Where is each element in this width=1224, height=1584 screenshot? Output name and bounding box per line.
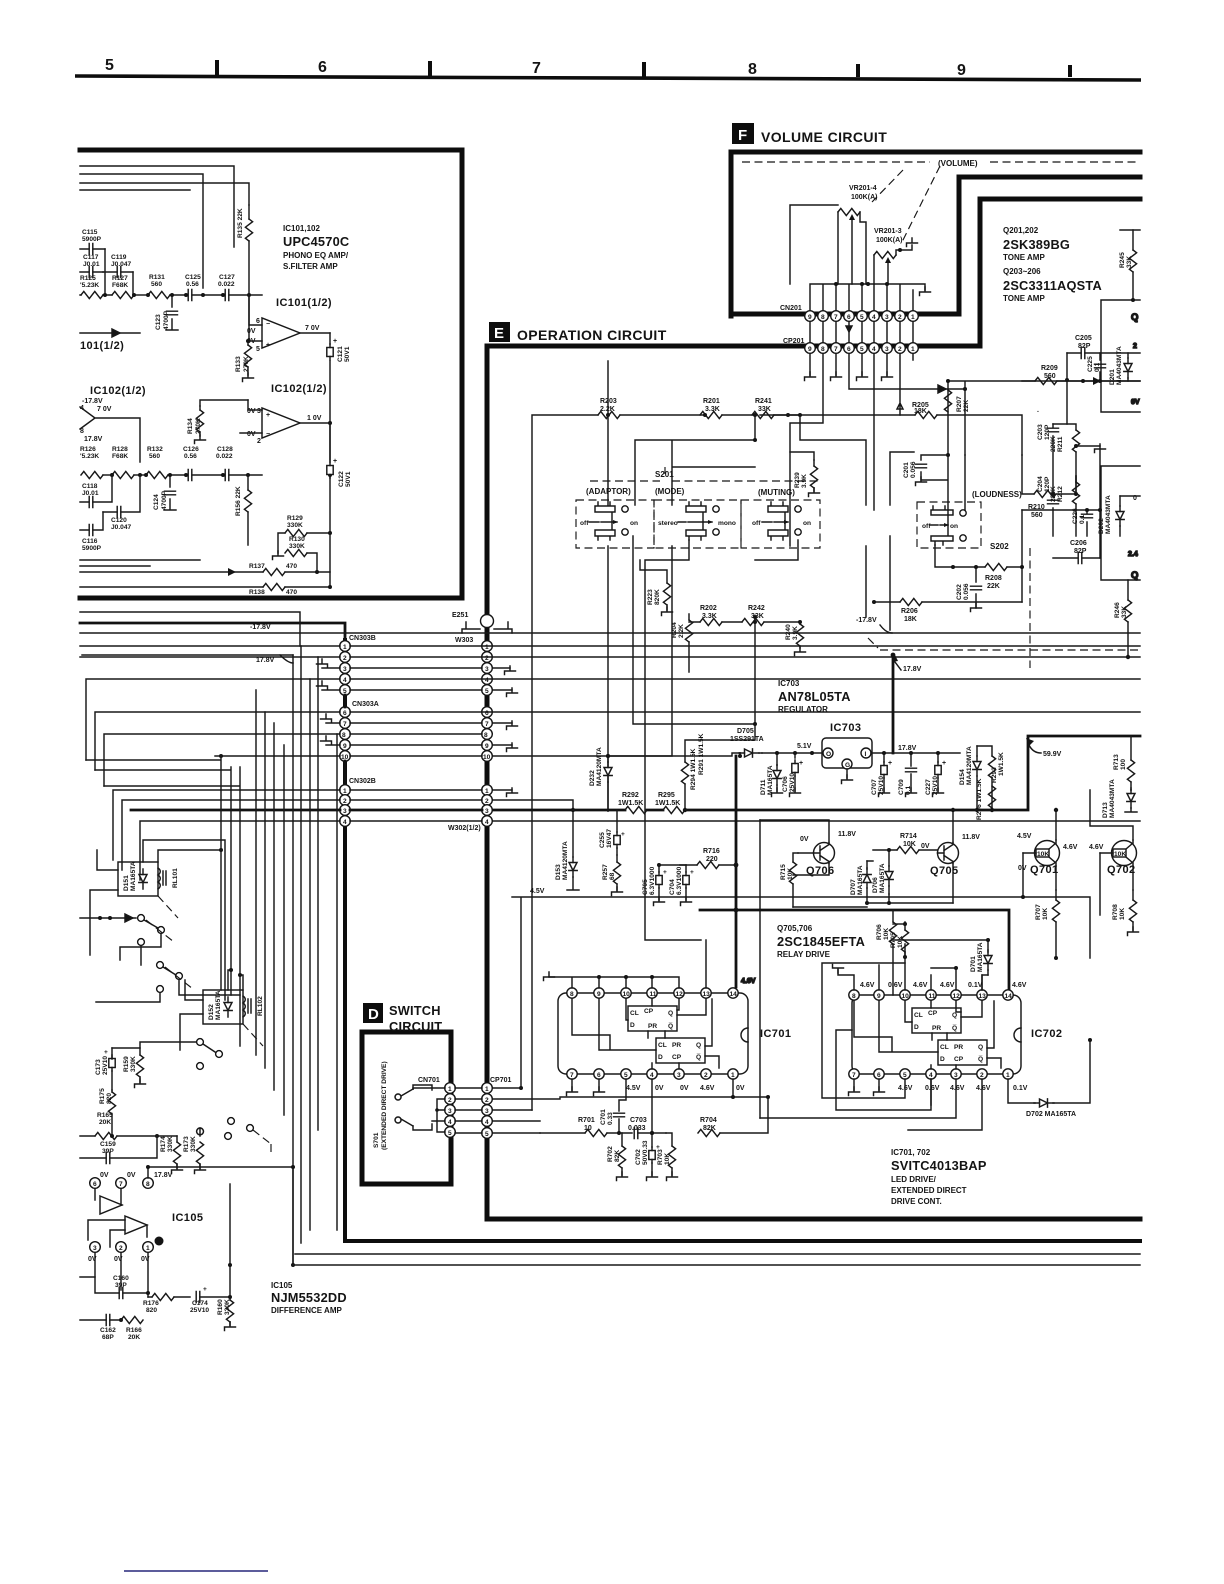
svg-text:13: 13 <box>703 991 711 998</box>
svg-text:NJM5532DD: NJM5532DD <box>271 1290 347 1305</box>
capacitor C226 0.1 <box>1072 508 1093 536</box>
svg-text:20K: 20K <box>128 1334 140 1341</box>
wire row pin10 <box>215 753 740 758</box>
IC701 bottom labels <box>626 1085 745 1092</box>
svg-text:CN303B: CN303B <box>349 635 376 642</box>
wire 4.5V rail <box>512 888 1090 1088</box>
F section label <box>732 123 887 145</box>
svg-text:4.6V: 4.6V <box>741 978 756 985</box>
svg-text:MA4120MTA: MA4120MTA <box>596 747 603 786</box>
switch contacts upper group <box>80 914 240 1002</box>
wires bottom-left entry <box>80 560 200 566</box>
svg-text:RELAY DRIVE: RELAY DRIVE <box>777 950 831 959</box>
wire row pin9 hook <box>321 736 518 752</box>
svg-text:0V: 0V <box>680 1085 689 1092</box>
svg-text:7 0V: 7 0V <box>305 325 320 332</box>
svg-text:1: 1 <box>343 644 347 651</box>
svg-text:2: 2 <box>898 314 902 321</box>
svg-text:R296 1W1.5K: R296 1W1.5K <box>976 778 983 820</box>
resistor R702 82K <box>607 1133 628 1181</box>
resistor R125 5.23K <box>80 275 112 299</box>
svg-text:4.6V: 4.6V <box>1063 844 1078 851</box>
svg-text:R132: R132 <box>147 446 163 453</box>
diode D707 MA165TA <box>850 861 871 903</box>
svg-text:MA4120MTA: MA4120MTA <box>966 746 973 785</box>
svg-text:VOLUME CIRCUIT: VOLUME CIRCUIT <box>761 129 887 145</box>
svg-text:D: D <box>914 1024 919 1031</box>
resistor R293 1W1.5K <box>977 746 1005 812</box>
svg-text:IC703: IC703 <box>830 722 861 734</box>
S201 label and bracket <box>590 467 818 481</box>
resistor R246 33K <box>1114 580 1132 659</box>
svg-text:C118: C118 <box>82 483 98 490</box>
switch box MUTING <box>741 488 820 548</box>
svg-text:0.56: 0.56 <box>184 453 197 460</box>
IC105 opamp B <box>88 1216 147 1247</box>
connector CN201 <box>780 305 918 321</box>
svg-text:C705: C705 <box>642 879 649 895</box>
wire row pin6 <box>95 712 1140 770</box>
svg-text:C202: C202 <box>956 584 963 600</box>
svg-text:0.56: 0.56 <box>186 281 199 288</box>
svg-text:5: 5 <box>485 688 489 695</box>
transistor Q702 digital <box>1089 790 1137 915</box>
svg-text:R211: R211 <box>1057 436 1064 452</box>
svg-text:330K: 330K <box>289 543 305 550</box>
svg-text:33K: 33K <box>758 406 771 413</box>
svg-text:PHONO EQ AMP/: PHONO EQ AMP/ <box>283 251 349 260</box>
svg-text:R175: R175 <box>99 1088 106 1104</box>
svg-text:VR201-4: VR201-4 <box>849 185 877 192</box>
IC702 body <box>852 995 1062 1074</box>
svg-text:MA165TA: MA165TA <box>977 942 984 972</box>
svg-text:R246: R246 <box>1114 602 1121 618</box>
svg-text:1: 1 <box>485 788 489 795</box>
svg-text:CP201: CP201 <box>783 338 805 345</box>
wire row w302-3 thick rail <box>131 736 1140 812</box>
svg-text:C173: C173 <box>95 1059 102 1075</box>
wire relay2 feeds <box>180 968 243 1050</box>
svg-text:4.6V: 4.6V <box>913 982 928 989</box>
svg-text:3: 3 <box>448 1108 452 1115</box>
IC702 top bus ground <box>833 944 983 990</box>
svg-text:3: 3 <box>485 666 489 673</box>
svg-text:R129: R129 <box>287 515 303 522</box>
svg-text:'5.23K: '5.23K <box>80 282 99 289</box>
svg-text:R208: R208 <box>985 575 1002 582</box>
wire switch outputs down <box>606 536 890 940</box>
svg-text:1: 1 <box>1006 1072 1010 1079</box>
svg-text:off: off <box>580 520 589 527</box>
svg-text:+: + <box>266 342 270 349</box>
svg-text:E251: E251 <box>452 612 468 619</box>
wire row pin7 hook <box>321 714 518 730</box>
capacitor C201 0.056 <box>903 453 965 510</box>
svg-text:+: + <box>333 458 337 465</box>
connector CN302B column <box>340 778 376 826</box>
wire tone node row <box>1022 449 1140 558</box>
wire feedback row y333 <box>80 329 140 337</box>
resistor R705 10K body <box>893 922 909 957</box>
wire IC702 left loop <box>760 963 982 1130</box>
svg-text:C701: C701 <box>600 1109 607 1125</box>
wire long verticals mid-left <box>256 646 337 1265</box>
resistor R130 330K <box>273 536 318 572</box>
svg-text:C204: C204 <box>1037 476 1044 492</box>
svg-text:5: 5 <box>860 314 864 321</box>
IC701 flipflop box B <box>656 1038 705 1063</box>
svg-text:S202: S202 <box>990 542 1009 551</box>
svg-text:100K(A): 100K(A) <box>876 237 902 244</box>
svg-text:4: 4 <box>343 819 347 826</box>
svg-text:D: D <box>658 1054 663 1061</box>
capacitor C225 0.1 <box>1087 353 1106 381</box>
resistor R714 10K <box>873 833 937 854</box>
wire row w302-1 hook <box>113 788 518 860</box>
svg-text:6: 6 <box>93 1181 97 1188</box>
svg-text:3: 3 <box>954 1072 958 1079</box>
svg-text:+: + <box>621 831 625 838</box>
svg-text:5: 5 <box>485 1131 489 1138</box>
svg-text:4: 4 <box>485 677 489 684</box>
wire long verticals left <box>86 756 240 1046</box>
svg-text:3: 3 <box>343 808 347 815</box>
diode D706 MA165TA <box>872 848 893 894</box>
resistor R160 330K <box>217 1184 236 1331</box>
IC701 bottom grounds <box>567 1079 605 1096</box>
svg-text:2: 2 <box>485 1097 489 1104</box>
svg-text:IC105: IC105 <box>172 1212 203 1224</box>
svg-text:+: + <box>663 869 667 876</box>
svg-text:2: 2 <box>898 346 902 353</box>
wire R701 row <box>0 0 1 1</box>
svg-text:2: 2 <box>1133 343 1137 350</box>
svg-text:C702: C702 <box>635 1149 642 1165</box>
relay RL101 <box>118 861 179 918</box>
svg-text:0V: 0V <box>800 836 809 843</box>
svg-text:2: 2 <box>343 798 347 805</box>
svg-text:R245: R245 <box>1119 252 1126 268</box>
resistor R210 560 <box>1022 407 1078 519</box>
svg-text:R206: R206 <box>901 608 918 615</box>
regulator IC703 <box>822 722 960 784</box>
connector W303 column <box>455 637 492 761</box>
svg-text:25V10: 25V10 <box>102 1056 109 1075</box>
capacitor C702 50V0.33 <box>635 1131 660 1181</box>
wire row pin2 <box>80 656 1140 658</box>
resistor R704 82K <box>698 1079 770 1137</box>
svg-text:−: − <box>266 431 270 438</box>
svg-text:8: 8 <box>570 991 574 998</box>
svg-text:-17.8V: -17.8V <box>82 398 103 405</box>
svg-text:6: 6 <box>256 318 260 325</box>
svg-text:CN303A: CN303A <box>352 701 379 708</box>
capacitor C205 82P <box>1065 335 1140 382</box>
IC702 bottom grounds <box>849 1079 885 1096</box>
wire -17.8V rail label <box>856 617 892 633</box>
svg-text:CL: CL <box>940 1044 949 1051</box>
svg-text:6: 6 <box>485 710 489 717</box>
capacitor C706 25V10 <box>782 760 803 797</box>
svg-text:50V1: 50V1 <box>344 346 351 362</box>
transistor Q706 <box>760 820 856 877</box>
svg-text:on: on <box>950 523 958 530</box>
svg-text:R295: R295 <box>658 792 675 799</box>
svg-text:Q701: Q701 <box>1030 864 1059 876</box>
phono EQ amp block border <box>80 150 462 598</box>
svg-text:OPERATION CIRCUIT: OPERATION CIRCUIT <box>517 327 667 343</box>
svg-text:R156 22K: R156 22K <box>235 486 242 516</box>
svg-text:12: 12 <box>953 993 961 1000</box>
wire switch mid links <box>0 0 1 1</box>
svg-text:2: 2 <box>704 1072 708 1079</box>
svg-text:5: 5 <box>860 346 864 353</box>
svg-text:R702: R702 <box>607 1146 614 1162</box>
svg-text:1: 1 <box>485 644 489 651</box>
resistor R245 33K <box>1119 230 1140 300</box>
svg-text:Q: Q <box>668 1010 673 1017</box>
svg-text:0V: 0V <box>247 431 256 438</box>
svg-text:C159: C159 <box>100 1141 116 1148</box>
svg-text:9: 9 <box>957 62 966 79</box>
svg-text:22K: 22K <box>963 400 970 412</box>
svg-text:PR: PR <box>932 1025 941 1032</box>
svg-text:R239: R239 <box>794 472 801 488</box>
IC702 top pins <box>849 990 1013 1000</box>
op-amp IC102 left half clipped <box>80 398 140 462</box>
svg-text:R706: R706 <box>876 924 883 940</box>
svg-text:IC102(1/2): IC102(1/2) <box>90 385 146 397</box>
svg-text:820: 820 <box>146 1307 157 1314</box>
svg-text:6: 6 <box>847 346 851 353</box>
svg-text:R294 1W1.5K: R294 1W1.5K <box>690 748 697 790</box>
svg-text:D701: D701 <box>970 956 977 972</box>
svg-text:C203: C203 <box>1037 424 1044 440</box>
svg-text:LED DRIVE/: LED DRIVE/ <box>891 1175 937 1184</box>
diode D702 MA165TA <box>1008 1038 1092 1118</box>
svg-text:+: + <box>104 1049 108 1056</box>
svg-text:+: + <box>799 760 803 767</box>
svg-text:4.6V: 4.6V <box>860 982 875 989</box>
resistor R135 22K <box>237 205 253 341</box>
svg-text:1: 1 <box>343 788 347 795</box>
svg-text:C125: C125 <box>185 274 201 281</box>
svg-text:50V1: 50V1 <box>345 471 352 487</box>
svg-text:3: 3 <box>677 1072 681 1079</box>
svg-text:R201: R201 <box>703 398 720 405</box>
op-amp IC102 (1/2) right <box>240 383 330 460</box>
svg-text:14: 14 <box>1005 993 1013 1000</box>
resistor R716 220 <box>680 848 738 869</box>
connector CP201 <box>783 338 918 353</box>
svg-text:20K: 20K <box>99 1119 111 1126</box>
svg-text:7: 7 <box>570 1072 574 1079</box>
svg-text:2: 2 <box>485 655 489 662</box>
svg-text:C225: C225 <box>1087 356 1094 372</box>
svg-text:VR201-3: VR201-3 <box>874 228 902 235</box>
resistor R174 330K <box>157 1136 183 1174</box>
svg-text:8: 8 <box>748 61 757 78</box>
wire IC702 surround <box>0 0 1 1</box>
resistor R208 22K <box>935 510 1024 602</box>
svg-text:10K: 10K <box>1042 908 1049 920</box>
resistor R206 18K <box>872 598 1022 623</box>
wire row pin4 <box>86 679 1140 760</box>
svg-text:7: 7 <box>119 1181 123 1188</box>
resistor R201 3.3K <box>700 398 757 419</box>
resistor R159 330K <box>112 1039 222 1088</box>
svg-text:4: 4 <box>872 346 876 353</box>
resistor R138 470 <box>80 533 332 596</box>
diode D713 MA4043MTA <box>1102 779 1137 818</box>
svg-text:J0.01: J0.01 <box>83 261 100 268</box>
wire input steps top-left <box>80 166 249 288</box>
svg-text:UPC4570C: UPC4570C <box>283 234 349 249</box>
svg-text:7: 7 <box>485 721 489 728</box>
svg-text:stereo: stereo <box>658 520 678 527</box>
svg-text:0V: 0V <box>736 1085 745 1092</box>
svg-text:D202: D202 <box>1098 518 1105 534</box>
svg-text:R223: R223 <box>647 589 654 605</box>
svg-text:0.022: 0.022 <box>218 281 235 288</box>
svg-text:C160: C160 <box>113 1275 129 1282</box>
svg-text:IC702: IC702 <box>1031 1028 1062 1040</box>
svg-text:(ADAPTOR): (ADAPTOR) <box>586 487 631 496</box>
resistor R207 22K <box>944 390 970 412</box>
switch S701 <box>373 1061 432 1150</box>
box Q202 clipped <box>1101 298 1140 412</box>
svg-text:0.022: 0.022 <box>216 453 233 460</box>
svg-text:D151: D151 <box>123 875 130 891</box>
svg-text:4.6V: 4.6V <box>700 1085 715 1092</box>
IC701 top bus and ground <box>544 940 756 988</box>
diode D705 1SS291TA <box>730 728 764 758</box>
wire CP201 down feeds <box>790 354 823 546</box>
svg-text:3: 3 <box>885 346 889 353</box>
svg-text:IC701, 702: IC701, 702 <box>891 1148 931 1157</box>
svg-text:7: 7 <box>834 346 838 353</box>
svg-text:CN701: CN701 <box>418 1077 440 1084</box>
svg-text:CL: CL <box>630 1010 639 1017</box>
svg-text:3.3K: 3.3K <box>705 406 720 413</box>
IC105 pins top <box>90 1172 173 1188</box>
svg-text:D: D <box>368 1006 379 1023</box>
svg-text:Q702: Q702 <box>1107 864 1136 876</box>
svg-text:R166: R166 <box>126 1327 142 1334</box>
svg-text:R715: R715 <box>780 864 787 880</box>
resistor R292 1W1.5K <box>618 792 647 814</box>
svg-text:R159: R159 <box>123 1056 130 1072</box>
capacitor C705 6.3V1000 <box>642 863 667 906</box>
svg-text:F68K: F68K <box>112 453 128 460</box>
svg-text:0.6V: 0.6V <box>888 982 903 989</box>
svg-text:8: 8 <box>342 732 346 739</box>
svg-text:0.6V: 0.6V <box>925 1085 940 1092</box>
svg-text:MA4043MTA: MA4043MTA <box>1109 779 1116 818</box>
svg-text:1 0V: 1 0V <box>307 415 322 422</box>
capacitor C117 <box>80 254 103 278</box>
D section label <box>363 1003 442 1034</box>
svg-text:330K: 330K <box>167 1136 174 1152</box>
svg-text:R126: R126 <box>80 446 96 453</box>
svg-text:10K: 10K <box>1119 908 1126 920</box>
IC701 top pins <box>567 988 738 998</box>
svg-text:4: 4 <box>929 1072 933 1079</box>
svg-text:17.8V: 17.8V <box>898 745 917 752</box>
potentiometer VR201-3 <box>874 228 918 284</box>
wire mode loop <box>606 361 866 505</box>
svg-text:MA165TA: MA165TA <box>857 865 864 895</box>
diode D701 MA165TA <box>893 938 992 990</box>
capacitor C121 50V1 <box>327 333 351 462</box>
wire row w302-2 <box>122 800 573 870</box>
svg-text:5.1V: 5.1V <box>797 743 812 750</box>
svg-text:9: 9 <box>343 743 347 750</box>
resistor R204 2.2K <box>671 614 693 672</box>
svg-text:I: I <box>865 751 867 758</box>
svg-text:C127: C127 <box>219 274 235 281</box>
svg-text:10: 10 <box>902 993 910 1000</box>
svg-text:7: 7 <box>343 721 347 728</box>
svg-text:820K: 820K <box>654 589 661 605</box>
resistor R713 100 <box>1113 736 1135 790</box>
svg-text:AN78L05TA: AN78L05TA <box>778 689 851 704</box>
svg-text:-17.8V: -17.8V <box>856 617 877 624</box>
svg-text:IC101(1/2): IC101(1/2) <box>276 297 332 309</box>
svg-text:C206: C206 <box>1070 540 1087 547</box>
resistor R240 3.9K <box>785 620 806 656</box>
IC105 opamp A <box>95 1189 122 1214</box>
svg-text:C128: C128 <box>217 446 233 453</box>
svg-text:4700P: 4700P <box>163 310 170 330</box>
svg-text:11.8V: 11.8V <box>838 831 856 838</box>
svg-text:mono: mono <box>718 520 736 527</box>
wire row pin8 <box>104 734 482 786</box>
resistor R175 820 <box>99 1088 116 1136</box>
svg-text:F68K: F68K <box>112 282 128 289</box>
wire CP701 rows right <box>493 1086 768 1133</box>
svg-text:D706: D706 <box>872 877 879 893</box>
svg-text:−: − <box>266 321 270 328</box>
svg-text:MA165TA: MA165TA <box>879 863 886 893</box>
svg-text:1: 1 <box>731 1072 735 1079</box>
svg-text:17.8V: 17.8V <box>256 657 275 664</box>
svg-text:9: 9 <box>808 314 812 321</box>
svg-text:C162: C162 <box>100 1327 116 1334</box>
svg-text:6: 6 <box>343 710 347 717</box>
svg-text:IC105: IC105 <box>271 1281 293 1290</box>
transistor Q701 digital <box>1017 808 1078 899</box>
svg-text:D711: D711 <box>760 779 767 795</box>
svg-text:Q: Q <box>1131 312 1138 323</box>
svg-text:R701: R701 <box>578 1117 595 1124</box>
svg-text:'5.23K: '5.23K <box>80 453 99 460</box>
capacitor C162 68P <box>80 1315 119 1342</box>
svg-text:RL101: RL101 <box>172 868 179 888</box>
svg-text:+: + <box>333 338 337 345</box>
wire CN201 top bus <box>810 282 931 310</box>
svg-text:D232: D232 <box>589 770 596 786</box>
svg-text:2: 2 <box>119 1245 123 1252</box>
svg-text:C205: C205 <box>1075 335 1092 342</box>
svg-text:R707: R707 <box>1035 904 1042 920</box>
svg-text:CIRCUIT: CIRCUIT <box>389 1019 442 1034</box>
svg-text:+: + <box>266 412 270 419</box>
svg-text:9: 9 <box>597 991 601 998</box>
svg-text:C706: C706 <box>782 776 789 792</box>
svg-text:5: 5 <box>624 1072 628 1079</box>
svg-text:D154: D154 <box>959 769 966 785</box>
